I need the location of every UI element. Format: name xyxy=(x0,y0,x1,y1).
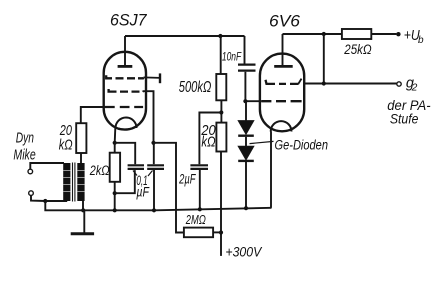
wire mike top to primary xyxy=(30,163,64,169)
svg-text:6SJ7: 6SJ7 xyxy=(110,11,147,29)
wire g1 to grid resistor xyxy=(81,107,105,123)
terminal mike top circle xyxy=(28,169,33,174)
label 0,1uF leader ticks xyxy=(133,171,153,177)
transformer winding striations xyxy=(63,171,84,192)
node return junction xyxy=(43,199,47,203)
node R2/C1 bottom junction xyxy=(113,191,117,195)
U1 anode bar xyxy=(118,65,133,68)
wire anode rail U2 xyxy=(283,33,342,35)
wire suppressor node to C2 xyxy=(153,143,155,164)
node g2 junction xyxy=(322,81,326,85)
node coupling junction xyxy=(243,99,247,103)
node diode ground xyxy=(244,206,248,210)
U2 anode bar xyxy=(274,65,293,68)
svg-text:µF: µF xyxy=(136,185,149,200)
U1 g2 terminal bar xyxy=(159,73,161,83)
wire cathode node to C1 xyxy=(115,143,136,164)
tube U2 6V6 envelope xyxy=(260,54,304,132)
wire g1 exit to coupling node xyxy=(245,100,261,102)
wire 25k to +Ub xyxy=(371,33,396,35)
diode D1 lead xyxy=(245,101,247,120)
capacitor C3 2uF plates xyxy=(190,165,208,169)
U1 cathode lead xyxy=(114,128,117,143)
wire g3 exit to junction xyxy=(143,91,154,143)
U2 grid g1 row (dashed) xyxy=(261,100,301,102)
U2 anode lead xyxy=(282,34,284,65)
transformer T1 secondary winding xyxy=(77,163,84,201)
svg-text:kΩ: kΩ xyxy=(201,134,215,151)
wire g2 exit xyxy=(304,83,397,85)
svg-text:2kΩ: 2kΩ xyxy=(89,162,110,178)
svg-text:6V6: 6V6 xyxy=(269,12,301,30)
wire anode to g2 node xyxy=(323,34,325,84)
svg-text:2MΩ: 2MΩ xyxy=(185,213,206,227)
U2 beam tick xyxy=(298,79,302,85)
U1 g2 stub wire xyxy=(144,76,161,79)
R3-R4 connecting lead xyxy=(220,100,222,122)
wire primary bottom return xyxy=(45,200,67,202)
wire screen node to C3 xyxy=(199,113,221,165)
U2 grid g2 row (dashed) xyxy=(266,80,299,84)
node screen junction xyxy=(219,110,223,114)
wire anode rail U1 xyxy=(125,35,245,37)
terminal +Ub dot xyxy=(396,32,400,36)
C3 bottom lead xyxy=(199,170,201,209)
wire ground bus xyxy=(45,201,271,210)
U2 cathode arc xyxy=(271,121,292,131)
resistor R4 20kOhm xyxy=(216,123,226,152)
node anode rail / R3 junction xyxy=(218,34,222,38)
svg-text:Dyn: Dyn xyxy=(16,131,34,147)
label Ge-Dioden leader xyxy=(250,141,274,143)
svg-text:2: 2 xyxy=(411,83,418,94)
capacitor C2 0.1uF plates xyxy=(147,165,164,169)
C4 leads xyxy=(244,36,247,101)
svg-text:b: b xyxy=(418,35,424,46)
capacitor C4 10nF plates xyxy=(238,65,256,71)
node R2 ground xyxy=(113,208,117,212)
transformer T1 core xyxy=(73,163,75,202)
node 2M / +300V junction xyxy=(219,230,223,234)
wire secondary bottom lead xyxy=(82,201,84,210)
node secondary/ground junction xyxy=(81,208,85,212)
wire suppressor node to R5 xyxy=(154,143,184,233)
node C2 ground xyxy=(152,208,156,212)
resistor R2 2kOhm xyxy=(110,153,120,182)
resistor R3 500k top lead xyxy=(220,36,222,74)
wire C1 bottom return xyxy=(115,170,135,193)
node suppressor junction xyxy=(151,141,155,145)
svg-text:500kΩ: 500kΩ xyxy=(179,79,212,96)
svg-text:10nF: 10nF xyxy=(222,50,242,64)
svg-text:Ge-Dioden: Ge-Dioden xyxy=(275,138,329,153)
wire secondary top lead xyxy=(80,153,82,163)
svg-text:+300V: +300V xyxy=(225,244,262,260)
resistor R2 2kOhm top lead xyxy=(114,143,116,153)
tube U1 6SJ7 envelope xyxy=(104,52,146,130)
svg-text:Mike: Mike xyxy=(13,148,35,164)
R5 right lead xyxy=(213,231,221,233)
diode D1 Ge xyxy=(238,121,254,135)
terminal g2 circle xyxy=(397,82,401,86)
U1 grid g2 row (dashed) xyxy=(106,75,143,78)
capacitor C1 0.1uF plates xyxy=(128,165,144,169)
U1 anode lead xyxy=(124,36,126,65)
resistor R6 25kOhm xyxy=(342,29,371,39)
ground stem xyxy=(83,210,85,233)
resistor R3 500kOhm xyxy=(216,74,226,100)
wire R4 bottom to +300V rail xyxy=(220,152,222,256)
svg-text:kΩ: kΩ xyxy=(59,136,73,153)
U1 grid g1 row (dashed) xyxy=(105,106,143,108)
svg-text:2µF: 2µF xyxy=(178,172,196,187)
svg-text:Stufe: Stufe xyxy=(390,111,419,127)
R2 bottom lead xyxy=(114,181,116,210)
U1 cathode arc xyxy=(116,118,137,129)
D2 bottom lead xyxy=(245,162,247,208)
terminal mike bottom circle xyxy=(29,191,34,196)
resistor R5 2MOhm xyxy=(184,228,213,238)
U2 cathode lead xyxy=(270,132,272,208)
diode D2 Ge xyxy=(238,146,254,160)
svg-text:25kΩ: 25kΩ xyxy=(343,42,371,57)
resistor R1 20kOhm xyxy=(76,123,86,153)
U1 grid g3 row (dashed) xyxy=(109,89,143,92)
node cathode junction U1 xyxy=(113,141,117,145)
node C3 ground xyxy=(198,207,202,211)
D1-D2 lead xyxy=(245,137,247,147)
C2 bottom lead xyxy=(153,170,155,210)
node U2 anode / 25k junction xyxy=(322,32,326,36)
wire mike bottom to return xyxy=(31,195,45,201)
ground symbol xyxy=(71,232,94,235)
transformer T1 primary winding xyxy=(63,163,70,201)
